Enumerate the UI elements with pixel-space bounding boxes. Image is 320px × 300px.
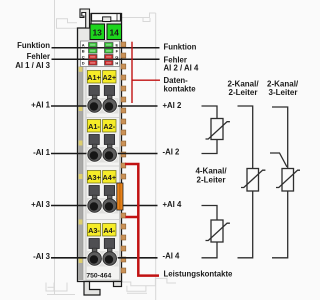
svg-text:A3+: A3+ xyxy=(87,173,101,182)
svg-text:C: C xyxy=(82,54,85,59)
svg-text:750-464: 750-464 xyxy=(86,272,111,279)
svg-text:Leistungskontakte: Leistungskontakte xyxy=(164,269,234,278)
svg-text:14: 14 xyxy=(109,27,119,37)
svg-text:+AI 1: +AI 1 xyxy=(31,100,51,109)
svg-text:Funktion: Funktion xyxy=(164,42,197,51)
svg-text:Fehler: Fehler xyxy=(27,52,50,61)
svg-text:A1-: A1- xyxy=(88,122,100,131)
svg-text:4-Kanal/: 4-Kanal/ xyxy=(195,167,227,176)
svg-text:3-Leiter: 3-Leiter xyxy=(269,88,298,97)
svg-text:A: A xyxy=(82,42,85,47)
svg-text:A2+: A2+ xyxy=(103,73,117,82)
svg-text:-AI 4: -AI 4 xyxy=(163,252,181,261)
svg-text:AI 1 / AI 3: AI 1 / AI 3 xyxy=(15,61,50,70)
svg-text:Funktion: Funktion xyxy=(17,41,50,50)
svg-text:E: E xyxy=(115,42,118,47)
svg-text:A4-: A4- xyxy=(103,226,115,235)
svg-text:-AI 2: -AI 2 xyxy=(163,148,181,157)
svg-text:AI 2 / AI 4: AI 2 / AI 4 xyxy=(164,63,199,72)
svg-text:B: B xyxy=(82,48,85,53)
svg-text:G: G xyxy=(115,54,118,59)
svg-text:+AI 4: +AI 4 xyxy=(163,200,183,209)
svg-text:13: 13 xyxy=(92,27,102,37)
svg-text:A2-: A2- xyxy=(103,122,115,131)
svg-text:A4+: A4+ xyxy=(103,173,117,182)
svg-text:+AI 2: +AI 2 xyxy=(163,101,183,110)
svg-text:H: H xyxy=(115,60,118,65)
svg-text:2-Leiter: 2-Leiter xyxy=(229,88,258,97)
svg-text:-AI 1: -AI 1 xyxy=(33,148,51,157)
svg-text:2-Leiter: 2-Leiter xyxy=(197,176,226,185)
svg-text:kontakte: kontakte xyxy=(164,85,197,94)
svg-text:A3-: A3- xyxy=(88,226,100,235)
svg-text:A1+: A1+ xyxy=(87,73,101,82)
svg-text:D: D xyxy=(82,60,85,65)
svg-text:+AI 3: +AI 3 xyxy=(31,200,51,209)
svg-text:-AI 3: -AI 3 xyxy=(33,252,51,261)
